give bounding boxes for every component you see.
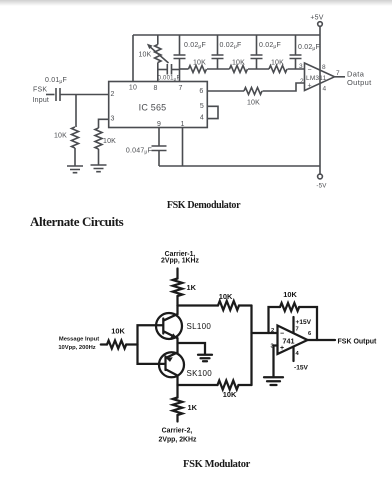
svg-text:7: 7 [296, 327, 299, 333]
svg-text:2: 2 [111, 91, 115, 98]
svg-text:8: 8 [153, 85, 157, 92]
svg-text:0.02μF: 0.02μF [184, 42, 206, 50]
svg-text:+15V: +15V [296, 319, 312, 326]
svg-text:2: 2 [271, 328, 274, 334]
svg-text:5: 5 [200, 103, 204, 110]
svg-text:+5V: +5V [310, 15, 323, 22]
svg-text:0.02μF: 0.02μF [219, 42, 241, 50]
svg-text:10K: 10K [247, 100, 260, 107]
svg-text:1K: 1K [188, 403, 198, 412]
svg-text:10Vpp, 200Hz: 10Vpp, 200Hz [58, 345, 95, 351]
svg-text:10: 10 [129, 85, 137, 92]
svg-text:3: 3 [111, 115, 115, 122]
svg-text:10K: 10K [223, 390, 237, 399]
svg-text:10K: 10K [54, 133, 67, 140]
svg-text:SL100: SL100 [187, 322, 212, 331]
svg-text:8: 8 [322, 64, 326, 71]
svg-text:Carrier-2,: Carrier-2, [162, 427, 193, 434]
svg-text:Input: Input [33, 97, 50, 104]
svg-text:10K: 10K [138, 52, 151, 59]
svg-text:3: 3 [299, 63, 303, 70]
svg-text:1K: 1K [187, 283, 197, 292]
svg-text:0.02μF: 0.02μF [259, 42, 281, 50]
svg-text:-5V: -5V [316, 183, 327, 190]
svg-text:741: 741 [283, 337, 295, 346]
svg-text:10K: 10K [193, 60, 206, 67]
svg-text:0.001μF: 0.001μF [158, 76, 181, 82]
svg-text:LM311: LM311 [306, 75, 327, 82]
svg-text:2Vpp, 2KHz: 2Vpp, 2KHz [159, 436, 197, 443]
svg-text:2: 2 [300, 78, 304, 85]
svg-text:10K: 10K [111, 327, 125, 336]
svg-text:10K: 10K [271, 60, 284, 67]
svg-text:6: 6 [199, 88, 203, 95]
svg-text:+: + [280, 345, 284, 352]
svg-text:4: 4 [323, 86, 327, 93]
svg-text:0.02μF: 0.02μF [298, 44, 320, 52]
svg-text:10K: 10K [103, 138, 116, 145]
svg-text:Message Input: Message Input [59, 337, 99, 343]
svg-text:0.047μF: 0.047μF [126, 147, 152, 155]
svg-text:7: 7 [336, 70, 340, 77]
svg-text:IC 565: IC 565 [139, 103, 167, 113]
svg-text:Output: Output [347, 78, 372, 87]
svg-text:10K: 10K [232, 60, 245, 67]
svg-text:+: + [308, 83, 312, 90]
svg-text:−: − [308, 67, 312, 74]
svg-text:−: − [280, 331, 284, 338]
svg-text:FSK Output: FSK Output [338, 339, 378, 346]
svg-text:0.01μF: 0.01μF [45, 77, 67, 85]
svg-text:10K: 10K [219, 292, 233, 301]
svg-text:10K: 10K [283, 290, 297, 299]
svg-text:SK100: SK100 [187, 369, 213, 378]
svg-text:9: 9 [157, 121, 161, 128]
svg-text:4: 4 [200, 114, 204, 121]
svg-text:1: 1 [180, 121, 184, 128]
svg-text:-15V: -15V [294, 365, 309, 372]
svg-text:FSK: FSK [33, 87, 47, 94]
svg-text:Alternate Circuits: Alternate Circuits [30, 214, 124, 229]
svg-text:FSK Modulator: FSK Modulator [183, 459, 251, 470]
svg-text:7: 7 [178, 85, 182, 92]
svg-text:FSK Demodulator: FSK Demodulator [167, 200, 241, 211]
svg-text:2Vpp, 1KHz: 2Vpp, 1KHz [161, 258, 199, 265]
